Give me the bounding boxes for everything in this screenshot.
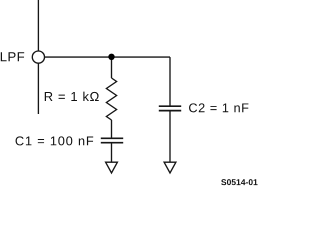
wire: resistor bottom to C1: [111, 120, 113, 138]
wire: vertical stub below LPF node: [37, 63, 39, 114]
ground symbol below C1 (open triangle): [106, 162, 118, 173]
resistor R (R = 1 kOhm) zigzag body: [106, 78, 116, 120]
value label C2 = 1 nF: [189, 103, 248, 112]
wire: junction to resistor R top: [111, 57, 113, 78]
ground symbol below C2 (open triangle): [164, 162, 176, 173]
junction dot at R/C2 tap: [108, 54, 114, 60]
value label R = 1 kOhm: [45, 92, 99, 101]
wire: C1 bottom to ground: [111, 144, 113, 163]
wire: C2 bottom to ground: [169, 111, 171, 162]
net label LPF: [1, 52, 24, 61]
wire: vertical drop to C2: [169, 57, 171, 106]
capacitor C2 plates (C2 = 1 nF): [159, 105, 181, 107]
capacitor C1 plates (C1 = 100 nF): [101, 137, 123, 139]
wire: vertical stub into LPF node from top: [37, 0, 39, 51]
figure number S0514-01: [221, 179, 257, 185]
node LPF (open-circle terminal): [32, 51, 44, 63]
value label C1 = 100 nF: [16, 136, 94, 145]
wire: horizontal from LPF node to C2 branch: [45, 56, 171, 58]
